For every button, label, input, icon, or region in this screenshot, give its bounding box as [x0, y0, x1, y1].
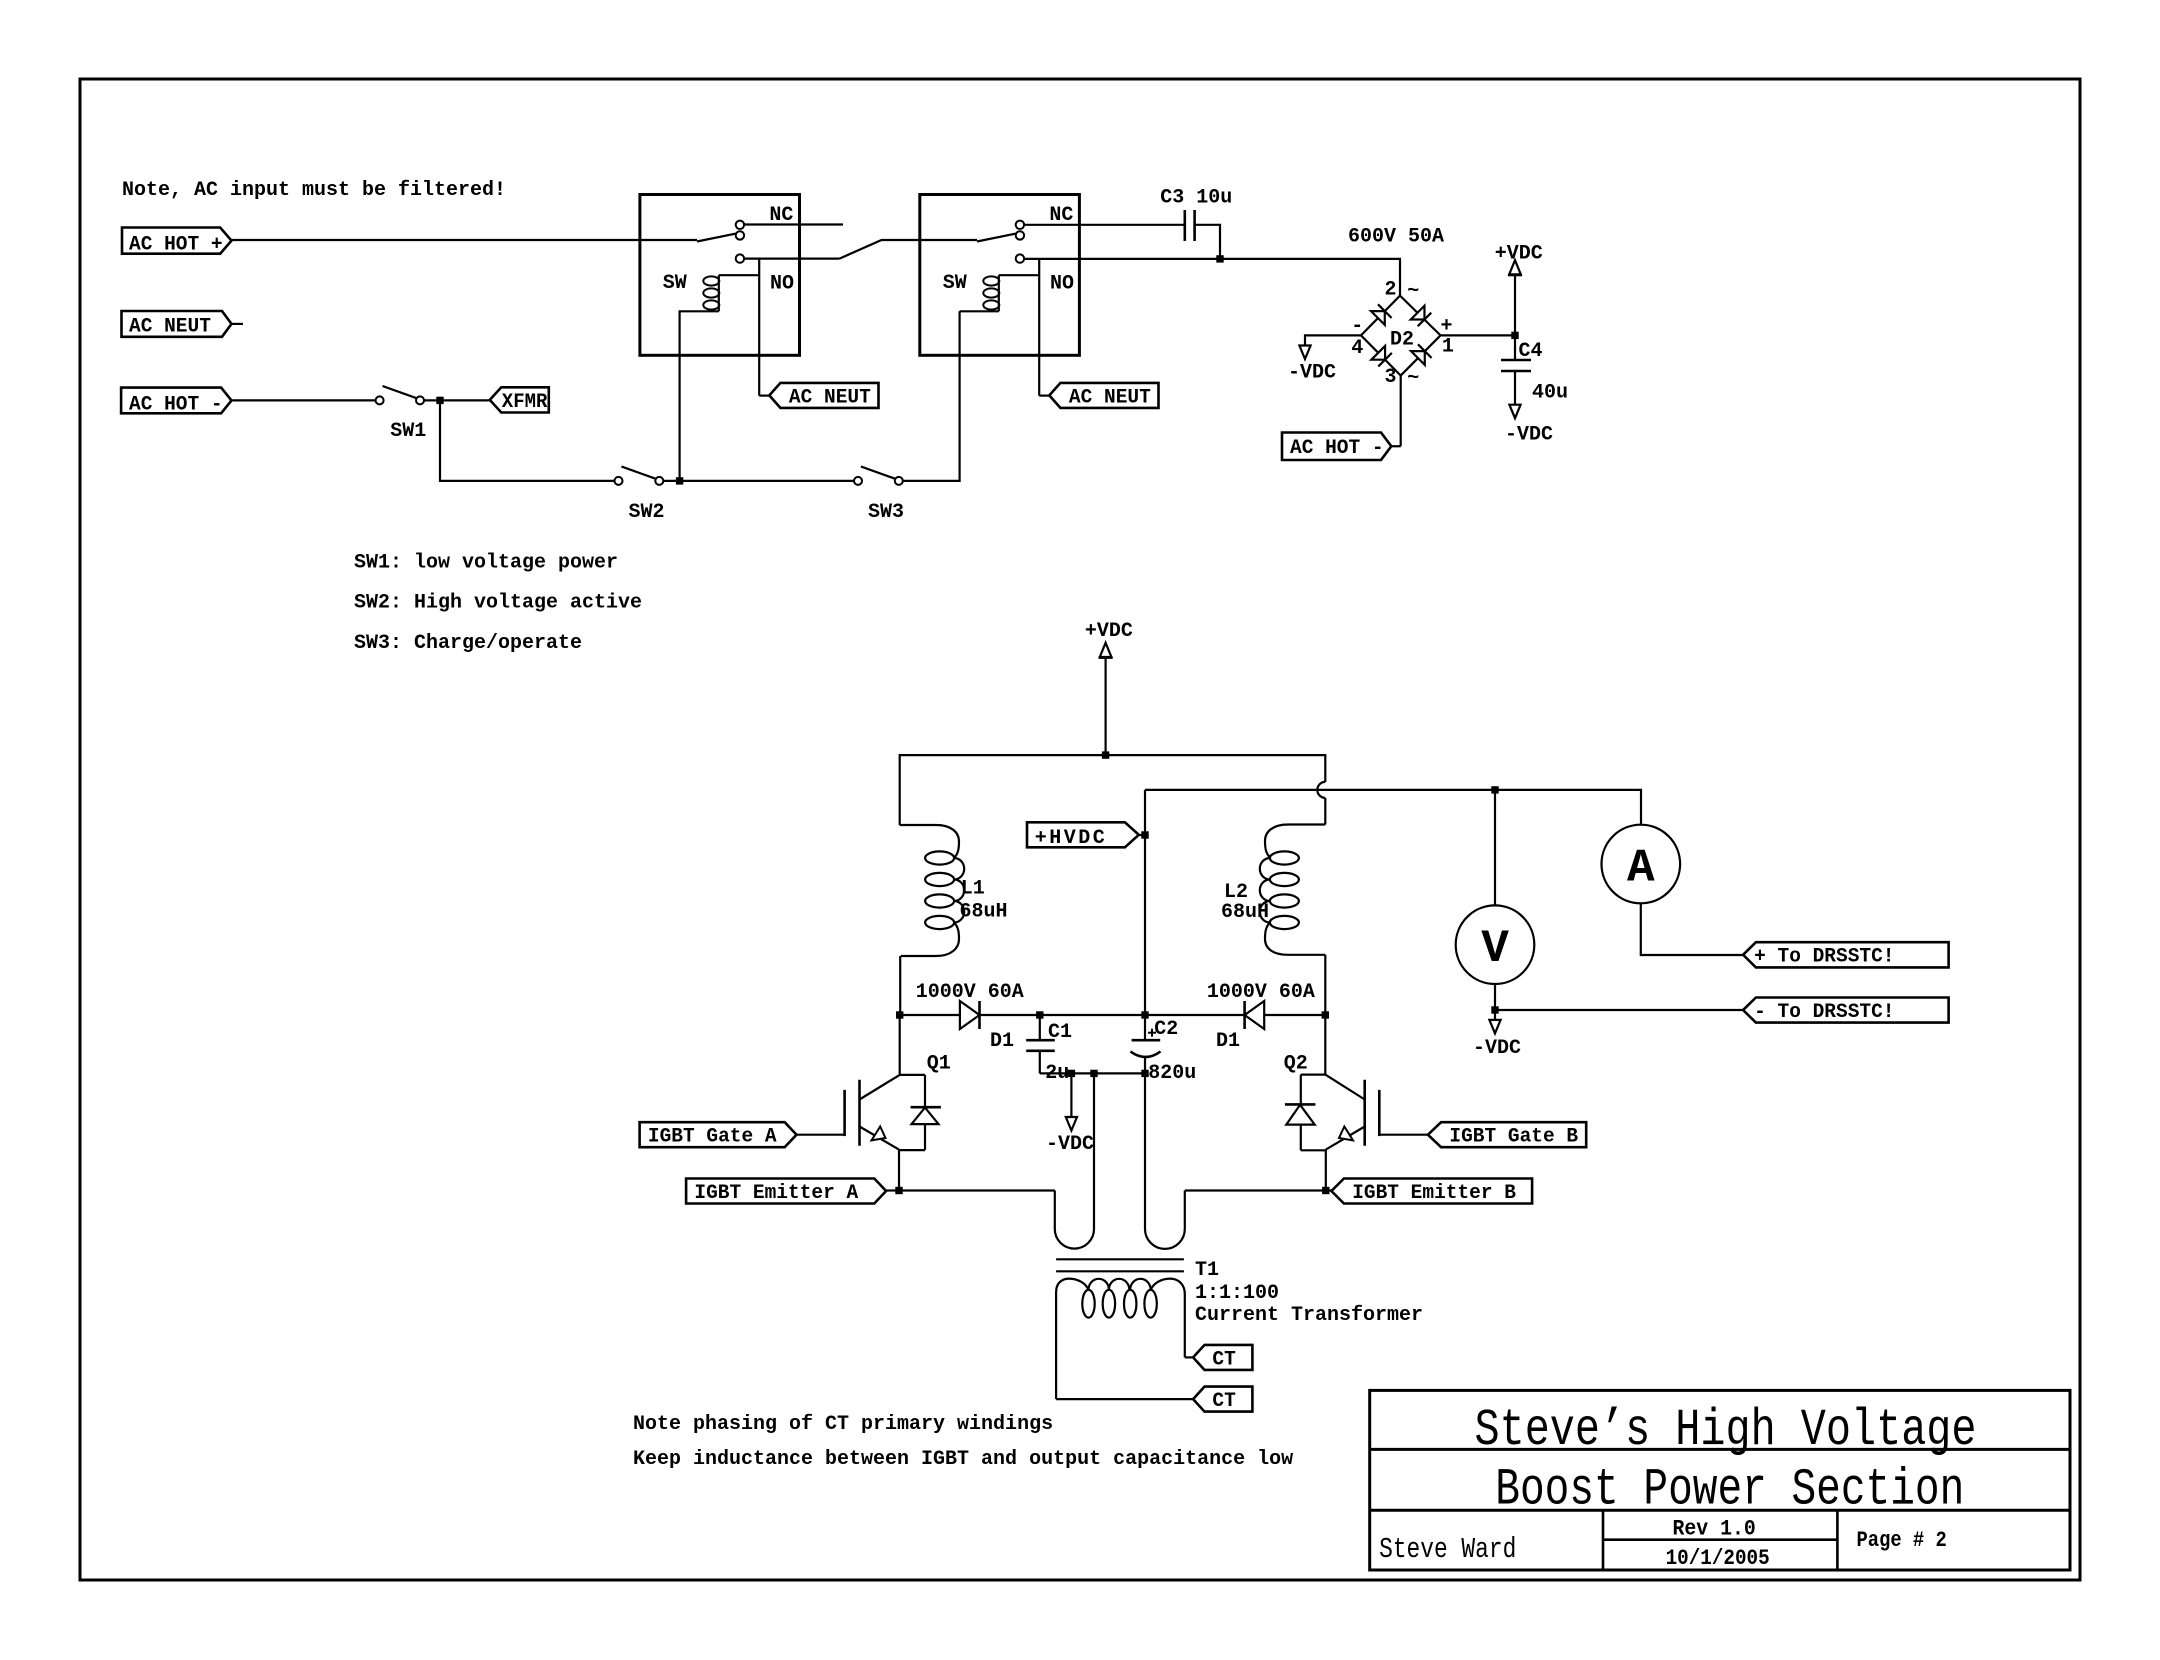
label - To DRSSTC! [1743, 998, 1949, 1023]
wire gate A [797, 1134, 845, 1136]
inductor L2 68uH [1265, 825, 1325, 858]
relay K2 coil [998, 275, 1000, 311]
svg-text:AC NEUT: AC NEUT [129, 315, 211, 338]
label XFMR [490, 387, 549, 412]
relay K2 coil bottom lead [960, 310, 999, 312]
wire ammeter bottom to + To DRSSTC [1641, 903, 1743, 955]
svg-text:SW1: low voltage power: SW1: low voltage power [354, 552, 618, 575]
svg-text:CT: CT [1212, 1390, 1235, 1413]
junction C2 node [1141, 1011, 1148, 1018]
wire C1 bottom rail [1040, 1072, 1145, 1074]
svg-text:3: 3 [1385, 366, 1397, 389]
svg-text:SW: SW [943, 272, 967, 295]
relay K2 coil top lead [999, 274, 1039, 276]
inductor L1 68uH [900, 825, 959, 858]
wire hop over HV rail [1317, 782, 1325, 798]
bridge diode bottom-left [1371, 346, 1392, 367]
svg-text:40u: 40u [1532, 382, 1568, 405]
wire diode row right [1264, 1014, 1325, 1016]
relay K2 blade [977, 234, 1016, 242]
wire voltmeter bottom [1494, 984, 1496, 1010]
svg-text:D2: D2 [1390, 328, 1414, 351]
wire to - To DRSSTC [1495, 1009, 1743, 1011]
power -VDC (bridge) [1299, 346, 1310, 360]
svg-text:820u: 820u [1148, 1062, 1196, 1085]
relay K1 coil bottom lead [680, 311, 719, 481]
relay K1 contact circles [736, 221, 744, 229]
svg-text:AC NEUT: AC NEUT [1069, 386, 1151, 409]
wire node to bridge pin2 [1220, 259, 1400, 296]
svg-text:SW2: High voltage active: SW2: High voltage active [354, 592, 642, 615]
relay K1 NO wire [744, 258, 839, 260]
wire T1 secondary to CT (upper) [1185, 1356, 1193, 1358]
svg-text:Current Transformer: Current Transformer [1195, 1304, 1423, 1327]
svg-text:Note phasing of CT primary win: Note phasing of CT primary windings [633, 1413, 1053, 1436]
wire AC NEUT stub [232, 323, 244, 325]
wire diode row left [900, 1014, 960, 1016]
wire K1 NO to K2 (with break) [840, 240, 978, 259]
svg-text:CT: CT [1212, 1348, 1235, 1371]
svg-text:-VDC: -VDC [1505, 423, 1553, 446]
wire -VDC stem (mid) [1070, 1073, 1072, 1117]
svg-text:2: 2 [1385, 279, 1397, 302]
svg-text:AC HOT +: AC HOT + [129, 234, 223, 257]
label + To DRSSTC! [1743, 942, 1949, 967]
junction C1 node [1036, 1011, 1043, 1018]
wire C3 right lead [1195, 225, 1220, 259]
junction -VDC tap [1068, 1070, 1075, 1077]
transistor Q2 (IGBT) [1324, 1015, 1326, 1075]
wire bridge plus to C4 node [1441, 334, 1516, 336]
antiparallel diode (Q1) [924, 1075, 926, 1107]
relay K1 NO contact circle [736, 254, 744, 262]
junction +VDC bus [1102, 751, 1109, 758]
wire emitter A tip [886, 1189, 899, 1191]
junction emitter B [1322, 1187, 1329, 1194]
transformer T1 core [1056, 1258, 1184, 1260]
T1 primary loop A (from emitter A) [1055, 1073, 1094, 1248]
wire T1 secondary to CT (lower) [1056, 1398, 1193, 1400]
junction +HVDC tap [1141, 831, 1148, 838]
relay K2 NC wire to C3 [1024, 224, 1185, 226]
relay K2 contact circles [1016, 221, 1024, 229]
wire AC HOT + to relay K1 blade [232, 239, 698, 241]
label IGBT Gate A [640, 1122, 797, 1147]
svg-text:1:1:100: 1:1:100 [1195, 1282, 1279, 1305]
wire SW3 to relay K2 coil [903, 311, 960, 481]
relay K2 box [920, 195, 1080, 356]
wire +VDC bus [900, 755, 1326, 825]
svg-text:+VDC: +VDC [1085, 620, 1133, 643]
svg-text:Q1: Q1 [927, 1053, 951, 1076]
relay K2 NO contact circle [1016, 254, 1024, 262]
svg-text:AC HOT -: AC HOT - [129, 394, 223, 417]
relay K1 blade [697, 234, 736, 242]
wire +HVDC vertical [1144, 790, 1146, 1040]
junction C4 node [1511, 332, 1518, 339]
svg-text:-VDC: -VDC [1288, 361, 1336, 384]
label AC HOT - (bridge) [1391, 445, 1400, 447]
svg-text:+ To DRSSTC!: + To DRSSTC! [1754, 946, 1894, 969]
svg-text:AC HOT -: AC HOT - [1290, 437, 1384, 460]
svg-text:1000V 60A: 1000V 60A [916, 981, 1024, 1004]
svg-text:NC: NC [1049, 204, 1073, 227]
power -VDC (voltmeter) [1494, 1010, 1496, 1020]
svg-text:NO: NO [770, 272, 794, 295]
relay K1 NC wire stub [744, 223, 843, 225]
svg-text:C1: C1 [1048, 1021, 1072, 1044]
junction T1 primary A [1090, 1070, 1097, 1077]
wire SW2 to SW3 [663, 480, 854, 482]
label AC NEUT (K2) [1039, 395, 1049, 397]
svg-text:Rev 1.0: Rev 1.0 [1673, 1517, 1756, 1542]
port AC HOT + [122, 228, 232, 254]
junction HV rail / voltmeter [1491, 786, 1498, 793]
wire bridge minus to -VDC [1305, 335, 1361, 345]
svg-text:IGBT Emitter B: IGBT Emitter B [1352, 1182, 1516, 1205]
wire C4 node up to +VDC [1514, 275, 1516, 335]
junction emitter A [895, 1187, 902, 1194]
svg-text:1000V 60A: 1000V 60A [1207, 981, 1315, 1004]
relay K2 NO wire [1024, 258, 1220, 260]
bridge diode bottom-right [1411, 344, 1432, 365]
power -VDC (under C4) [1509, 405, 1520, 419]
bridge rectifier D2 diamond [1361, 296, 1441, 376]
plus sign (C2) [1148, 1032, 1156, 1034]
svg-text:Keep inductance between IGBT a: Keep inductance between IGBT and output … [633, 1448, 1293, 1471]
svg-text:-VDC: -VDC [1473, 1037, 1521, 1060]
wire voltmeter top [1494, 790, 1496, 906]
svg-text:68uH: 68uH [1221, 901, 1269, 924]
svg-text:SW3: Charge/operate: SW3: Charge/operate [354, 632, 582, 655]
svg-text:V: V [1481, 923, 1509, 975]
relay K2 coil-NO vertical / AC NEUT drop [1038, 259, 1040, 396]
junction L2/D1/Q2 node [1322, 1011, 1329, 1018]
label IGBT Gate B [1428, 1122, 1586, 1147]
antiparallel diode (Q2) [1300, 1075, 1302, 1105]
label CT (upper) [1193, 1345, 1252, 1370]
svg-text:+HVDC: +HVDC [1035, 827, 1108, 850]
label IGBT Emitter A [686, 1179, 886, 1204]
port AC HOT - [121, 388, 231, 414]
svg-text:IGBT Gate A: IGBT Gate A [648, 1126, 777, 1149]
svg-text:C3 10u: C3 10u [1160, 186, 1232, 209]
port AC NEUT [122, 311, 232, 337]
svg-text:D1: D1 [1216, 1030, 1240, 1053]
svg-text:Steve’s High Voltage: Steve’s High Voltage [1475, 1401, 1977, 1460]
svg-text:XFMR: XFMR [502, 391, 548, 414]
capacitor C4 [1514, 335, 1516, 360]
switch SW2 [615, 477, 623, 485]
svg-text:IGBT Gate B: IGBT Gate B [1449, 1126, 1578, 1149]
svg-text:SW3: SW3 [868, 501, 904, 524]
wire bridge pin3 down [1400, 376, 1402, 447]
power +VDC (right) [1509, 260, 1521, 274]
junction C2 bottom [1141, 1070, 1148, 1077]
svg-text:+VDC: +VDC [1495, 242, 1543, 265]
capacitor C3 [1184, 210, 1187, 241]
svg-text:-VDC: -VDC [1046, 1133, 1094, 1156]
transformer T1 secondary [1056, 1279, 1088, 1400]
label +HVDC [1139, 834, 1145, 836]
capacitor C1 2u [1039, 1015, 1041, 1040]
bridge diode top-right [1411, 306, 1432, 327]
junction SW1 output [436, 397, 443, 404]
svg-text:~: ~ [1407, 280, 1419, 303]
svg-text:NC: NC [769, 204, 793, 227]
svg-text:Q2: Q2 [1284, 1053, 1308, 1076]
svg-text:T1: T1 [1195, 1259, 1219, 1282]
svg-text:- To DRSSTC!: - To DRSSTC! [1754, 1001, 1894, 1024]
relay K1 box [640, 195, 800, 356]
T1 primary loop B (from C2 node) [1145, 1073, 1185, 1249]
svg-text:Note, AC input must be filtere: Note, AC input must be filtered! [122, 179, 506, 202]
label CT (lower) [1193, 1387, 1252, 1412]
wire AC HOT - to SW1 [232, 399, 377, 401]
label IGBT Emitter B [1331, 1179, 1532, 1204]
switch SW3 [854, 477, 862, 485]
relay K1 coil [718, 275, 720, 311]
wire emitter B to T1 [1185, 1189, 1332, 1191]
relay K1 coil-NO vertical / AC NEUT drop [758, 259, 760, 396]
svg-text:10/1/2005: 10/1/2005 [1666, 1546, 1770, 1571]
svg-text:600V 50A: 600V 50A [1348, 226, 1444, 249]
svg-text:NO: NO [1050, 272, 1074, 295]
svg-text:4: 4 [1351, 337, 1363, 360]
svg-text:L1: L1 [961, 878, 985, 901]
svg-text:D1: D1 [990, 1030, 1014, 1053]
svg-text:~: ~ [1407, 367, 1419, 390]
svg-text:Page # 2: Page # 2 [1857, 1528, 1947, 1553]
svg-text:SW2: SW2 [629, 501, 665, 524]
label AC NEUT (K1) [759, 395, 769, 397]
wire bus right down to L2 [1324, 798, 1326, 825]
wire SW1 to XFMR [424, 399, 490, 401]
title block frame [1370, 1390, 2070, 1570]
transistor Q1 (IGBT) [899, 1015, 901, 1075]
power -VDC (mid) [1066, 1117, 1077, 1131]
svg-text:68uH: 68uH [960, 901, 1008, 924]
title block dividers [1370, 1448, 2070, 1451]
svg-text:A: A [1627, 843, 1655, 895]
wire SW1 junction down to SW2 [440, 400, 615, 481]
svg-text:C4: C4 [1519, 340, 1543, 363]
svg-text:SW: SW [663, 272, 687, 295]
junction C3/NO node [1216, 255, 1223, 262]
capacitor C2 820u (polarized) [1132, 1039, 1161, 1042]
svg-text:AC NEUT: AC NEUT [789, 386, 871, 409]
wire HV rail [1145, 790, 1641, 825]
svg-text:1: 1 [1442, 336, 1454, 359]
switch SW1 [376, 396, 384, 404]
voltmeter V circle [1456, 905, 1535, 984]
bridge diode top-left [1371, 304, 1392, 325]
wire gate B [1379, 1134, 1428, 1136]
diode D1 (left) 1000V 60A [960, 1001, 980, 1029]
svg-text:SW1: SW1 [390, 420, 426, 443]
wire diode row middle [980, 1014, 1245, 1016]
svg-text:C2: C2 [1154, 1018, 1178, 1041]
relay K1 coil top lead [719, 274, 759, 276]
svg-text:IGBT Emitter A: IGBT Emitter A [694, 1182, 858, 1205]
diode D1 (right) 1000V 60A [1245, 1001, 1265, 1029]
ammeter A circle [1602, 825, 1681, 904]
junction relay K1 coil return [676, 477, 683, 484]
wire emitter A to T1 [899, 1189, 1055, 1191]
svg-text:Boost Power Section: Boost Power Section [1495, 1460, 1964, 1519]
wire +VDC stem [1104, 658, 1106, 756]
junction voltmeter/- To DRSSTC [1491, 1006, 1498, 1013]
junction L1/D1/Q1 node [896, 1011, 903, 1018]
svg-text:Steve Ward: Steve Ward [1379, 1533, 1516, 1566]
